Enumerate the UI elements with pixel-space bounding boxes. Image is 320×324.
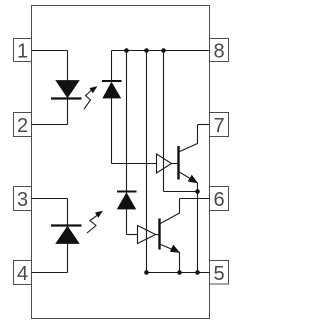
amp A1 input wire [112, 163, 157, 165]
PD2 cathode bar [117, 191, 137, 193]
wire LED1 vertical [67, 51, 69, 125]
transistor Q1 base bar [177, 146, 179, 180]
photodiode PD1 cathode wire [111, 51, 113, 82]
node dot supply1 rail [161, 48, 166, 53]
node dot PD2 rail [124, 48, 129, 53]
svg-text:4: 4 [17, 263, 28, 285]
PD1 anode wire down [111, 98, 113, 164]
node dot gnd channel1 [195, 270, 200, 275]
transistor Q2 base bar [158, 219, 160, 250]
LED D1 cathode bar [51, 97, 82, 99]
Q1 emitter wire [179, 172, 198, 192]
amp A1 output stub [172, 163, 179, 165]
pin 2 box [14, 113, 32, 138]
supply line channel2 [146, 51, 148, 273]
pin 7 box [210, 113, 229, 138]
node dot emitter1 [195, 189, 200, 194]
svg-text:6: 6 [213, 189, 224, 211]
light arrow channel2 [87, 211, 103, 233]
svg-text:8: 8 [213, 41, 224, 63]
Q2 collector wire [160, 199, 180, 225]
PD1 triangle [103, 83, 121, 99]
wire pin4 to LED2 [32, 272, 68, 274]
pin 4 box [14, 261, 32, 286]
pin 1 box [14, 39, 32, 63]
svg-text:7: 7 [213, 115, 224, 137]
LED D2 cathode bar [51, 224, 82, 226]
wire pin3 to LED2 [32, 198, 68, 200]
wire Q1 collector to pin7 [198, 124, 210, 126]
wire pin2 to LED1 [32, 124, 68, 126]
pin 3 box [14, 187, 32, 212]
amp A2 triangle [138, 226, 156, 244]
wire LED2 vertical [67, 199, 69, 273]
wire Q2 collector to pin6 [180, 198, 210, 200]
Q1 collector wire [179, 125, 198, 153]
pin 8 box [210, 39, 229, 63]
amp A2 output stub [156, 234, 160, 236]
amp A2 input wire [127, 234, 138, 236]
ground rail to pin5 [147, 272, 210, 274]
channel1 ground drop [197, 192, 199, 273]
Q2 emitter wire [160, 244, 180, 273]
LED D1 triangle [56, 81, 79, 98]
channel1 ground link wire [164, 191, 198, 193]
LED D2 triangle [56, 227, 79, 244]
node dot gnd supply2 [144, 270, 149, 275]
PD2 triangle [118, 193, 136, 209]
IC package outline [32, 6, 210, 319]
PD2 anode wire down [126, 209, 128, 235]
Q1 emitter arrowhead [188, 175, 197, 183]
amp A1 triangle [157, 154, 172, 173]
svg-text:5: 5 [213, 263, 224, 285]
wire pin1 to LED1 [32, 50, 68, 52]
svg-text:1: 1 [17, 41, 28, 63]
Vcc rail from pin 8 [112, 50, 210, 52]
svg-text:2: 2 [17, 115, 28, 137]
light arrow channel1 [84, 87, 97, 110]
pin 5 box [210, 261, 229, 286]
pin 6 box [210, 187, 229, 212]
svg-text:3: 3 [17, 189, 28, 211]
PD1 cathode bar [102, 80, 122, 82]
PD2 cathode wire [126, 51, 128, 192]
node dot gnd emitter2 [177, 270, 182, 275]
node dot supply2 rail [144, 48, 149, 53]
supply line channel1 [163, 51, 165, 192]
Q2 emitter arrowhead [170, 245, 179, 252]
